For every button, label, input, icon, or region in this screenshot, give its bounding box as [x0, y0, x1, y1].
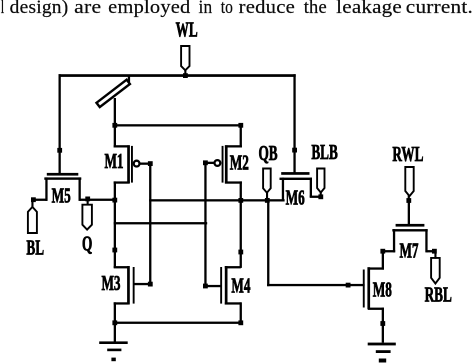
node dot on M6 gate wire: [292, 148, 297, 153]
ground right bar2: [376, 350, 391, 353]
transistor M1 channel bar: [127, 145, 130, 183]
wire stub from rail to sleep device: [128, 76, 130, 83]
terminal pin WL: [181, 46, 189, 70]
node M4 gate junction dot: [203, 284, 208, 289]
svg-text:M5: M5: [52, 183, 71, 207]
wire M2 gate lead: [204, 162, 215, 164]
wire BL to M5: [32, 199, 47, 201]
node M2 gate junction dot: [203, 160, 208, 165]
node WL junction dot: [183, 73, 188, 78]
svg-text:RBL: RBL: [425, 283, 452, 307]
wire QB line (M1 gate to M6): [149, 199, 285, 201]
wire right ground stem: [382, 321, 384, 343]
ground left bar1: [99, 341, 128, 344]
svg-text:leakage: leakage: [336, 0, 402, 18]
wire right column lower (M4 source to ground rail): [240, 302, 242, 324]
wire RWL pin stub: [408, 196, 410, 201]
wire M7 left terminal to M8 drain: [382, 250, 396, 252]
svg-text:M1: M1: [104, 149, 123, 173]
transistor M2 channel bar: [225, 145, 228, 183]
wire M4 source stub: [225, 302, 241, 304]
wire Q line (M5 to M1 drain column): [80, 199, 116, 201]
svg-text:M7: M7: [399, 238, 418, 262]
wire left column middle (M1 drain to M3 drain): [114, 181, 116, 268]
wire M4 gate lead: [205, 285, 221, 287]
wire M8 drain stub: [368, 267, 384, 269]
wire QB pin stub: [266, 192, 268, 200]
wire M5 right drop: [79, 177, 81, 201]
node RWL junction dot: [406, 198, 411, 203]
svg-text:current.: current.: [406, 0, 473, 18]
wire BLB pin stub: [320, 192, 322, 197]
wire M1 source stub: [114, 145, 130, 147]
wire M3 gate lead: [134, 283, 151, 285]
transistor M4 gate bar: [220, 267, 222, 304]
node M7-M8 dot: [380, 249, 385, 254]
ground right bar3: [379, 359, 386, 363]
transistor M1 gate bubble: [134, 161, 140, 167]
wire left ground stem: [114, 322, 116, 343]
wire RWL to M7 gate: [408, 200, 410, 225]
svg-text:M8: M8: [373, 278, 392, 302]
wire M8 drain vertical: [382, 250, 384, 270]
transistor M7 channel bar: [392, 229, 427, 231]
terminal pin RWL: [405, 167, 413, 196]
svg-text:RWL: RWL: [392, 142, 423, 166]
node BLB junction dot: [318, 194, 323, 199]
terminal pin Q: [82, 205, 92, 230]
svg-text:M4: M4: [231, 273, 250, 297]
wire ground rail: [114, 322, 242, 324]
transistor M8 channel bar: [367, 267, 370, 309]
sleep device diagonal bar: [96, 80, 129, 107]
transistor M3 gate bar: [133, 267, 135, 304]
node BL corner dot: [31, 197, 36, 202]
wire M2 source stub: [225, 145, 242, 147]
wire M4 drain stub: [225, 266, 241, 268]
node M8 ground dot: [380, 321, 385, 326]
wire M6 left drop: [282, 178, 284, 202]
svg-text:employed: employed: [108, 0, 191, 18]
node ground rail right dot: [238, 320, 243, 325]
svg-text:M3: M3: [101, 271, 120, 295]
wire WL top rail: [59, 74, 296, 77]
wire M7 right terminal to RBL: [427, 250, 437, 252]
wire QB vertical down to M8 gate row: [267, 199, 269, 286]
ground left bar3: [111, 358, 115, 362]
transistor M2 gate bar: [222, 146, 224, 183]
node dot on M5 gate wire: [57, 148, 62, 153]
transistor M7 gate bar: [396, 224, 425, 227]
svg-text:M2: M2: [230, 150, 249, 174]
node Q pin junction dot: [85, 197, 90, 202]
node QB pin junction dot: [265, 198, 270, 203]
wire BL pin stub: [31, 199, 33, 208]
wire M6 gate vertical: [293, 74, 295, 173]
ground left bar2: [107, 349, 121, 352]
wire M7 left drop: [393, 229, 395, 252]
wire M8 source stub: [368, 308, 384, 310]
transistor M6 channel bar: [280, 178, 313, 180]
wire right column upper (link to M2 source): [240, 124, 242, 147]
transistor M5 gate bar: [47, 173, 79, 176]
terminal pin QB: [263, 169, 271, 193]
wire source link horizontal: [114, 124, 242, 126]
node mid dot on left column: [112, 248, 117, 253]
transistor M6 gate bar: [281, 172, 309, 175]
ground right bar1: [368, 343, 396, 346]
svg-text:BL: BL: [26, 235, 44, 259]
terminal pin BLB: [317, 169, 324, 193]
svg-text:the: the: [304, 0, 327, 18]
svg-text:l: l: [1, 0, 5, 18]
wire from sleep device down to VDD link: [114, 98, 116, 126]
svg-text:design): design): [10, 0, 69, 18]
node dot on M8 gate wire: [346, 283, 351, 288]
transistor M4 channel bar: [225, 266, 228, 305]
node mid dot on right column: [238, 250, 243, 255]
wire right column middle (M2 drain to M4 drain): [240, 181, 242, 268]
wire M1 gate vertical to M3 gate: [149, 163, 151, 287]
wire Q pin stub: [87, 200, 89, 206]
transistor M1 gate bar: [131, 146, 133, 183]
wire M6 right drop: [310, 178, 312, 197]
svg-text:QB: QB: [258, 141, 277, 165]
terminal pin RBL: [431, 258, 440, 284]
wire left column lower (M3 source to ground rail): [114, 302, 116, 324]
node QB line right column dot: [238, 198, 243, 203]
node right link corner dot: [238, 123, 243, 128]
wire M5 gate vertical: [59, 74, 61, 174]
wire M8 source vertical: [382, 308, 384, 325]
wire M1 gate lead: [140, 163, 152, 165]
svg-text:in: in: [199, 0, 213, 18]
transistor M2 gate bubble: [215, 160, 221, 166]
svg-text:to: to: [221, 0, 233, 18]
wire M3 drain stub: [114, 266, 129, 268]
terminal pin BL: [28, 207, 37, 233]
svg-text:are: are: [74, 0, 101, 18]
wire M2 gate vertical to M4 gate: [204, 162, 206, 287]
node ground rail left dot: [112, 320, 117, 325]
node left link corner dot: [112, 123, 117, 128]
svg-text:reduce: reduce: [239, 0, 295, 18]
svg-text:BLB: BLB: [311, 140, 338, 164]
wire M3 source stub: [114, 302, 129, 304]
node Q line left column dot: [112, 198, 117, 203]
svg-text:Q: Q: [82, 231, 92, 255]
wire WL pin stub: [184, 70, 186, 77]
svg-text:WL: WL: [176, 17, 198, 41]
node RBL junction dot: [432, 249, 437, 254]
wire QB to M8 gate horizontal: [267, 284, 365, 286]
node M1 gate junction dot: [148, 161, 153, 166]
transistor M3 channel bar: [127, 266, 130, 305]
transistor M5 channel bar: [44, 177, 81, 179]
wire M5 left drop: [45, 177, 47, 201]
wire cross-couple line Q to M2 gate: [114, 222, 208, 224]
wire RBL pin stub: [434, 251, 436, 259]
wire M1 drain stub: [114, 181, 130, 183]
wire M7 right drop: [425, 229, 427, 252]
wire M6 to BLB: [310, 196, 322, 198]
svg-text:M6: M6: [286, 185, 305, 209]
transistor M8 gate bar: [363, 270, 365, 308]
wire M2 drain stub: [225, 181, 242, 183]
wire left column upper (link to M1 source): [114, 124, 116, 147]
node M3 gate junction dot: [148, 282, 153, 287]
